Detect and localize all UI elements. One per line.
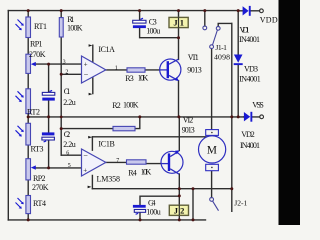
- relay switch J1-1: [203, 26, 220, 49]
- wire flyback line y=188.7: [92, 188, 231, 190]
- wire J1-1 contact A stub: [204, 11, 206, 26]
- svg-text:IC1A: IC1A: [98, 45, 115, 54]
- wire VD2 to VSS terminal: [244, 116, 260, 118]
- potentiometer RP2: [26, 159, 36, 180]
- wire VD1 to VDD terminal: [238, 10, 259, 12]
- wire J1 / VT1 collector column x=178.5: [178, 11, 180, 60]
- svg-text:6: 6: [66, 151, 69, 157]
- wire RP2 wiper to IC1B pin5: [36, 167, 82, 169]
- capacitor C4: [133, 205, 146, 214]
- svg-text:C1: C1: [64, 87, 71, 96]
- svg-text:LM358: LM358: [97, 175, 121, 184]
- svg-text:2.2u: 2.2u: [63, 140, 75, 149]
- svg-text:1: 1: [115, 65, 118, 71]
- transistor VT2: [161, 150, 183, 174]
- svg-text:IN4001: IN4001: [239, 74, 261, 83]
- svg-text:100K: 100K: [123, 100, 139, 109]
- svg-text:7: 7: [116, 158, 119, 164]
- wire C3 column: [140, 11, 179, 38]
- wire H1 IC1B V+ line y=136.8: [92, 136, 211, 138]
- svg-text:9013: 9013: [182, 125, 195, 134]
- wire bottom rail: [8, 219, 205, 221]
- svg-text:+: +: [84, 61, 88, 69]
- transistor VT1: [160, 59, 181, 81]
- wire IC1B output to R4: [106, 161, 127, 163]
- resistor R2: [113, 126, 135, 130]
- svg-text:−: −: [84, 70, 89, 79]
- svg-text:C3: C3: [149, 17, 157, 26]
- connector label J1: [169, 17, 188, 27]
- svg-text:4098: 4098: [214, 53, 230, 62]
- svg-text:RT4: RT4: [33, 199, 46, 208]
- svg-text:IC1B: IC1B: [98, 140, 115, 149]
- wire R4 to VT2 base: [146, 163, 168, 165]
- resistor R4: [127, 160, 147, 164]
- svg-text:C4: C4: [148, 198, 156, 207]
- svg-text:2: 2: [65, 70, 68, 76]
- svg-text:−: −: [83, 151, 88, 160]
- wire right column Va x=231.8: [231, 23, 233, 211]
- svg-text:270K: 270K: [32, 183, 49, 192]
- svg-text:VSS: VSS: [252, 100, 263, 109]
- svg-text:5: 5: [68, 163, 71, 169]
- svg-text:RP1: RP1: [30, 40, 43, 49]
- wire R3 to VT1 base: [145, 69, 167, 71]
- svg-text:RP2: RP2: [33, 174, 46, 183]
- svg-text:RT1: RT1: [34, 22, 47, 31]
- svg-text:270K: 270K: [29, 50, 46, 59]
- wire left frame: [7, 11, 9, 220]
- svg-text:J2-1: J2-1: [234, 198, 247, 207]
- photoresistor RT2: [16, 89, 31, 114]
- capacitor C1: [42, 90, 55, 100]
- wire J1-1 contact B link: [218, 23, 232, 26]
- svg-text:IN4001: IN4001: [239, 35, 260, 44]
- diode VD2: [244, 112, 264, 122]
- connector label J2: [169, 205, 188, 215]
- wire right drop x=193: [192, 189, 194, 220]
- pin numbers: [63, 59, 120, 169]
- svg-text:VD3: VD3: [244, 64, 258, 73]
- svg-text:100K: 100K: [67, 23, 83, 32]
- op-amp U1A triangle IC1A: [82, 44, 106, 95]
- resistor R1: [59, 18, 63, 37]
- wire VT1 emitter down: [178, 81, 180, 117]
- svg-text:M: M: [207, 145, 217, 157]
- svg-text:R3: R3: [125, 74, 134, 83]
- svg-text:R2: R2: [112, 101, 121, 110]
- svg-text:+: +: [83, 167, 87, 175]
- svg-text:VDD: VDD: [260, 16, 278, 25]
- photoresistor RT1: [16, 17, 31, 38]
- wire top VDD rail: [8, 10, 238, 12]
- photoresistor RT4: [16, 196, 31, 214]
- svg-text:10K: 10K: [141, 167, 152, 176]
- wire IC1B power stubs: [91, 137, 93, 189]
- svg-text:RT3: RT3: [31, 144, 44, 153]
- wire R1 / feedback vertical x=61.2: [60, 11, 62, 156]
- svg-text:IN4001: IN4001: [240, 141, 260, 150]
- svg-text:VD2: VD2: [241, 130, 255, 139]
- svg-text:J1-1: J1-1: [215, 43, 227, 52]
- svg-text:100u: 100u: [146, 207, 161, 216]
- svg-text:C2: C2: [64, 130, 71, 139]
- svg-text:RT2: RT2: [27, 107, 40, 116]
- diode VD3: [234, 55, 243, 66]
- wire IC1A power stubs: [92, 45, 94, 93]
- wire RP1 wiper to IC1A pin3: [36, 63, 82, 65]
- wire IC1A pin2: [61, 73, 81, 75]
- resistor R3: [127, 68, 145, 72]
- wire mid horizontal net y=116.9: [28, 116, 244, 118]
- wire right column Vb x=238.2 diode branch: [237, 11, 239, 117]
- svg-text:VT2: VT2: [183, 116, 194, 125]
- op-amp U1B triangle IC1B: [82, 136, 106, 188]
- motor M: [199, 130, 226, 171]
- svg-text:100u: 100u: [146, 26, 160, 35]
- black desktop band right: [279, 0, 301, 225]
- wire C4 branch: [140, 196, 179, 220]
- wire IC1A output to R3: [106, 69, 127, 71]
- svg-text:2.2u: 2.2u: [63, 98, 75, 107]
- wire IC1B pin6: [61, 154, 81, 156]
- svg-text:J 2: J 2: [174, 205, 185, 215]
- potentiometer RP1: [26, 54, 36, 73]
- wire VT2 emitter up: [178, 117, 180, 151]
- svg-text:9013: 9013: [187, 66, 202, 75]
- svg-text:VT1: VT1: [188, 53, 199, 62]
- wire R2 branch: [61, 117, 140, 129]
- wire motor drive line: [211, 49, 213, 130]
- capacitor C2: [42, 132, 55, 142]
- diode VD1: [243, 6, 264, 16]
- switch J2-1: [210, 198, 219, 211]
- photoresistor RT3: [16, 123, 31, 145]
- wire motor to J2-1 switch: [211, 171, 213, 198]
- wire C2 column x=48.6: [48, 117, 50, 168]
- wire VT2 collector down to bottom rail: [178, 174, 180, 220]
- capacitor C3: [133, 18, 146, 28]
- svg-text:R4: R4: [128, 169, 137, 178]
- wire C1 column x=48.6: [48, 64, 50, 117]
- svg-text:VD1: VD1: [240, 25, 250, 34]
- svg-text:J 1: J 1: [173, 18, 184, 28]
- wire sensor chain x=28.2: [27, 11, 29, 220]
- svg-text:10K: 10K: [138, 74, 149, 83]
- svg-text:3: 3: [63, 59, 66, 65]
